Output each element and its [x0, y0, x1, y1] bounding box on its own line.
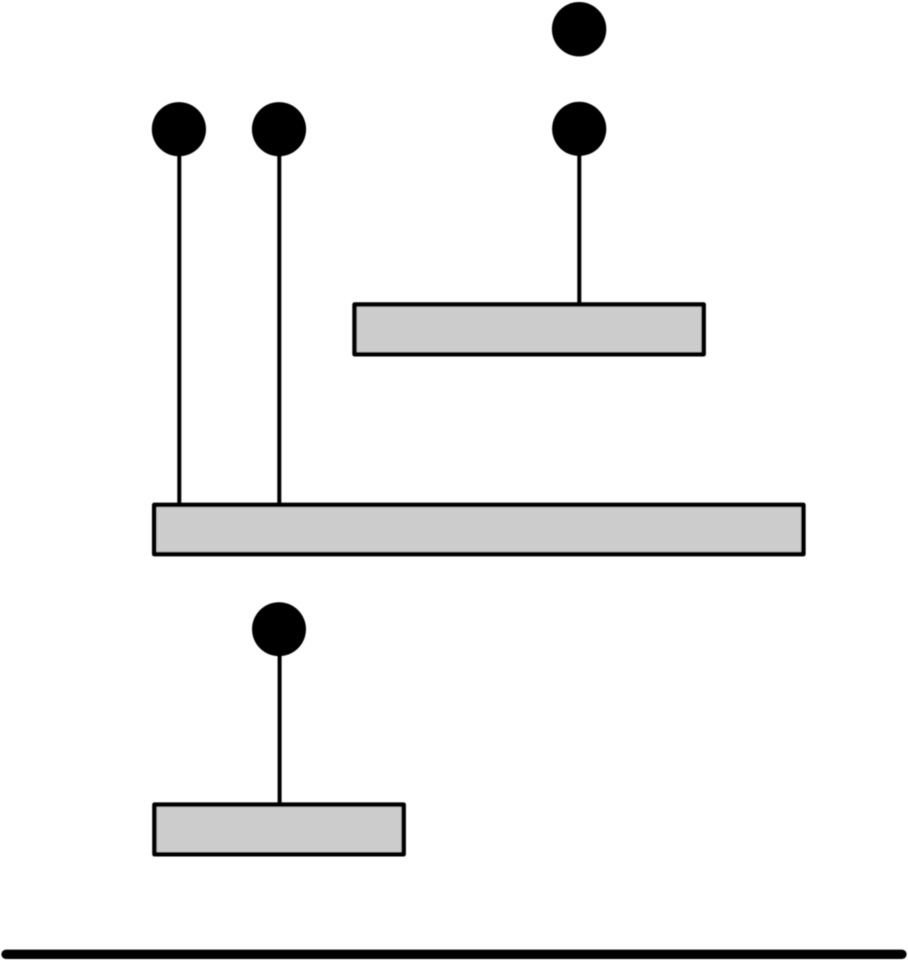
ground line [6, 950, 902, 959]
ball E [252, 602, 306, 656]
upper plate [355, 304, 704, 354]
small plate [154, 805, 403, 855]
ball C (free, top) [552, 2, 606, 56]
ball D [552, 102, 606, 156]
ball A [152, 102, 206, 156]
wire from ball E down to small plate [278, 629, 282, 806]
wire from ball B down to wide plate [277, 129, 281, 506]
wide plate [154, 505, 803, 554]
wire from ball D down to upper plate [577, 129, 581, 306]
wire from ball A down to wide plate [177, 129, 181, 506]
ball B [252, 102, 306, 156]
